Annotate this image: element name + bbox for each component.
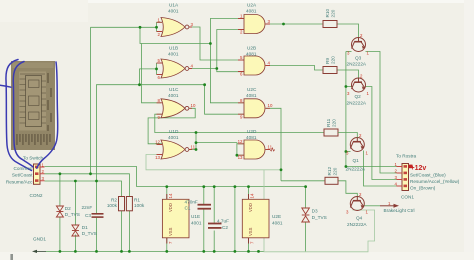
wire R9 to Q2 base: [337, 70, 359, 78]
node row2 D2 junction: [59, 172, 62, 175]
U2D output stub mark: [270, 148, 275, 151]
node U1B bracket junction: [155, 68, 158, 71]
wire U1B out branch to U2B pin6: [217, 69, 244, 72]
node VDD rail C1 junction: [202, 185, 205, 188]
svg-text:CON2: CON2: [30, 193, 43, 198]
svg-text:Q2: Q2: [355, 94, 362, 99]
wire D3 bottom lead: [305, 223, 307, 252]
resistor R10: [323, 21, 337, 28]
node U2E rail junction: [247, 185, 250, 188]
node GND R1 junction: [128, 250, 131, 253]
resistor R11: [324, 129, 338, 136]
svg-text:2N2222A: 2N2222A: [346, 166, 366, 171]
svg-text:4081: 4081: [272, 221, 283, 226]
svg-text:Q3: Q3: [355, 56, 362, 61]
wire U1A input net vertical: [90, 27, 92, 174]
svg-text:220: 220: [331, 56, 336, 64]
node U2A out junction: [282, 23, 285, 26]
wire spare vertical: [234, 187, 236, 252]
node GND U1E junction: [165, 250, 168, 253]
node GND C1 junction: [202, 250, 205, 253]
wire U1B output to junction: [190, 68, 217, 70]
diode D3 TVS: [302, 208, 310, 222]
svg-text:100k: 100k: [107, 203, 118, 208]
wire U2C output drop: [266, 108, 281, 181]
svg-text:CON1: CON1: [401, 195, 414, 200]
node GND D1 junction: [74, 250, 77, 253]
svg-text:U1E: U1E: [191, 214, 200, 219]
svg-text:D_TVS: D_TVS: [312, 215, 327, 220]
connector CON2: [34, 164, 45, 184]
svg-text:Common: Common: [13, 166, 32, 171]
op-amp U1C gate body: [161, 99, 189, 118]
node GND U2E junction: [247, 250, 250, 253]
op-amp U2C gate body: [244, 99, 265, 118]
wire U1A input bracket: [157, 22, 163, 31]
resistor R2: [119, 197, 125, 211]
svg-text:2N2222A: 2N2222A: [347, 62, 367, 67]
svg-text:2N2222A: 2N2222A: [347, 101, 367, 106]
svg-text:11: 11: [191, 144, 196, 149]
svg-text:U1D: U1D: [169, 129, 179, 134]
photo inset: [11, 61, 55, 150]
svg-text:U2E: U2E: [272, 214, 281, 219]
wire U1E pin7 lead: [166, 238, 168, 252]
wire Q2 collector tap: [346, 86, 352, 88]
diode D1 TVS: [72, 225, 79, 236]
wire Q1 emitter to CON1 pin4: [364, 151, 401, 187]
brakelight external pin: [380, 204, 399, 208]
transistor Q2: [352, 78, 366, 92]
wire row2 from CON2 pin2 to R1: [45, 174, 130, 197]
svg-text:C1: C1: [185, 206, 191, 211]
node GND D2 junction: [59, 250, 62, 253]
grey edge mark: [10, 254, 13, 260]
node GND C2 junction: [213, 250, 216, 253]
svg-text:U1C: U1C: [169, 87, 179, 92]
node VDD rail U1E junction: [165, 185, 168, 188]
capacitor C1: [198, 204, 212, 210]
node Q2 collector junction: [345, 85, 348, 88]
resistor R12: [325, 177, 338, 184]
wire row1 from CON2 pin1 to VDD rail: [45, 167, 137, 187]
wire U2A pin1 net to U2C pin8: [210, 44, 243, 103]
wire Q3 collector stub: [346, 51, 352, 53]
svg-text:D3: D3: [312, 209, 318, 214]
svg-text:12: 12: [155, 140, 160, 145]
wire U2B output to R9: [266, 66, 323, 71]
svg-text:4081: 4081: [246, 93, 257, 98]
op-amp U2B gate body: [244, 56, 265, 75]
node GND R2 junction: [120, 250, 123, 253]
svg-text:13: 13: [155, 155, 160, 160]
node row2 main junction: [89, 172, 92, 175]
diode D2 TVS: [56, 206, 63, 217]
svg-text:4001: 4001: [191, 221, 202, 226]
wire U2A pin1 feed: [210, 19, 243, 44]
wire R12 feed: [281, 180, 325, 182]
node GND vertical junction: [234, 250, 237, 253]
capacitor C3: [92, 213, 104, 218]
svg-text:D1: D1: [82, 225, 88, 230]
resistor R1: [126, 197, 132, 211]
svg-text:4081: 4081: [246, 52, 257, 57]
wire transistor collector chain: [345, 52, 347, 167]
svg-text:4.7uF: 4.7uF: [217, 219, 229, 224]
node row3 C3 junction: [95, 180, 98, 183]
svg-text:GND1: GND1: [33, 237, 46, 242]
wire +12v line to CON1 pin1: [346, 166, 400, 168]
op-amp U1D gate body: [161, 140, 189, 159]
node U1B out junction: [215, 67, 218, 70]
wire U1C output to U1D pin12: [148, 108, 195, 144]
wire R1 bottom lead: [128, 211, 130, 251]
svg-text:4081: 4081: [246, 9, 257, 14]
wire R11 to Q1 base: [338, 133, 357, 138]
svg-text:VDD: VDD: [168, 203, 173, 212]
wire U1B input riser: [97, 69, 157, 181]
wire U1D net to U1C pin9 and R11: [155, 114, 324, 132]
svg-text:Set/Coast_(Blue): Set/Coast_(Blue): [410, 173, 446, 178]
op-amp U1B gate body: [161, 59, 189, 78]
svg-text:VSS: VSS: [248, 227, 253, 236]
svg-text:10: 10: [268, 103, 273, 108]
svg-text:To Rostra: To Rostra: [396, 154, 416, 159]
node U2D bracket junction: [236, 154, 239, 157]
svg-text:U2B: U2B: [247, 46, 256, 51]
svg-text:R9: R9: [325, 58, 330, 64]
svg-text:Q4: Q4: [356, 216, 363, 221]
svg-text:4001: 4001: [168, 135, 179, 140]
transistor Q1: [350, 138, 364, 152]
node U2C pin9 branch junction: [203, 83, 206, 86]
svg-text:470nF: 470nF: [185, 200, 198, 205]
svg-text:VSS: VSS: [168, 227, 173, 236]
wire D2 bottom lead: [59, 218, 61, 252]
svg-text:U2A: U2A: [247, 3, 257, 8]
wire U1D output node: [190, 149, 196, 151]
transistor Q3: [352, 38, 366, 52]
node GND end junction: [257, 250, 260, 253]
svg-text:12: 12: [238, 139, 243, 144]
wire U1A input horizontal: [91, 26, 157, 28]
node Q1 collector junction: [345, 150, 348, 153]
svg-text:220: 220: [331, 9, 336, 17]
svg-text:D2: D2: [65, 206, 71, 211]
node row3 D1 junction: [74, 180, 77, 183]
svg-text:220: 220: [333, 167, 338, 175]
svg-text:To Switch: To Switch: [23, 156, 43, 161]
svg-text:BrakeLight Ctrl: BrakeLight Ctrl: [384, 208, 415, 213]
wire VDD rail: [137, 186, 306, 188]
svg-text:R10: R10: [325, 9, 330, 18]
wire GND rail: [46, 250, 264, 252]
svg-text:C3: C3: [85, 213, 91, 218]
svg-text:D_TVS: D_TVS: [82, 231, 97, 236]
svg-text:U1B: U1B: [169, 46, 178, 51]
svg-text:100k: 100k: [134, 203, 145, 208]
op-amp U2D gate body: [244, 140, 265, 159]
wire U1D net to U2D inputs: [196, 143, 237, 144]
svg-text:Resume/Acc: Resume/Acc: [6, 179, 33, 184]
svg-text:10: 10: [191, 103, 196, 108]
svg-text:Q1: Q1: [353, 158, 360, 163]
wire Q1 collector tap: [346, 151, 351, 153]
wire C1 leads: [203, 187, 205, 252]
resistor R9: [323, 67, 337, 74]
svg-text:C2: C2: [222, 225, 228, 230]
svg-text:14: 14: [250, 193, 255, 198]
wire light brakelight net: [146, 155, 375, 252]
node U1D riser top junction: [195, 131, 198, 134]
svg-text:4001: 4001: [168, 52, 179, 57]
svg-text:+12v: +12v: [411, 165, 427, 172]
capacitor C2: [208, 223, 222, 229]
node U1D net U2D branch junction: [195, 141, 198, 144]
wire U2E pin14 lead: [248, 187, 250, 200]
wire D1 top lead: [74, 181, 76, 225]
op-amp U2 pin stubs: [238, 19, 270, 156]
svg-text:R1: R1: [134, 198, 140, 203]
wire C2 leads: [213, 187, 215, 252]
wire U1A output to U2B pin5: [190, 27, 244, 60]
svg-text:2N2222A: 2N2222A: [347, 222, 367, 227]
node light line junction: [280, 168, 283, 171]
wire D2 top lead: [59, 174, 61, 206]
op-amp U1A gate body (NOR 4001): [161, 18, 189, 37]
wire U1E pin14 lead: [166, 187, 168, 200]
blue hand annotation: [0, 60, 58, 171]
node U1D out junction: [195, 148, 198, 151]
svg-text:D_TVS: D_TVS: [65, 212, 80, 217]
svg-text:14: 14: [168, 193, 173, 198]
wire U1B out branch to U2A pin2: [217, 30, 244, 69]
wire U1D out riser: [195, 133, 197, 150]
wire U2E pin7 lead: [248, 238, 250, 252]
node VDD rail vertical junction: [234, 185, 237, 188]
IC U2E power block: [242, 194, 269, 244]
svg-text:VDD: VDD: [248, 203, 253, 212]
svg-text:R2: R2: [111, 198, 117, 203]
wire Q4 emitter to brakelight pin: [364, 205, 380, 207]
wire U1B input bracket: [157, 63, 163, 75]
op-amp U2A gate body (AND 4081): [244, 15, 265, 34]
node U1B riser junction: [138, 83, 141, 86]
transistor Q4: [350, 197, 364, 211]
svg-text:4001: 4001: [168, 93, 179, 98]
node U1A bracket junction: [155, 26, 158, 29]
svg-text:4081: 4081: [246, 135, 257, 140]
wire U2D input bracket: [237, 144, 244, 155]
svg-text:Resume/Accel_(Yellow): Resume/Accel_(Yellow): [410, 179, 460, 184]
svg-text:R12: R12: [327, 167, 332, 176]
op-amp U1 pin stubs: [157, 22, 193, 154]
svg-text:U2D: U2D: [247, 129, 257, 134]
wire row3 from CON2 pin3 to R2: [45, 181, 122, 197]
wire D1 bottom lead: [74, 235, 76, 252]
svg-text:4001: 4001: [168, 9, 179, 14]
node VDD rail C2 junction: [213, 185, 216, 188]
wire row3 to U2C pin9: [140, 85, 244, 115]
wire Q2 emitter to CON1 pin3: [366, 87, 401, 180]
GND arrow dark: [34, 250, 46, 252]
svg-text:11: 11: [268, 144, 273, 149]
svg-text:13: 13: [238, 155, 243, 160]
wire Q3 emitter to CON1 pin2: [366, 52, 401, 174]
wire U2A output to R10: [266, 23, 323, 25]
svg-text:220: 220: [332, 119, 337, 127]
svg-text:U1A: U1A: [169, 3, 179, 8]
wire row2 drop to feedback row: [140, 27, 210, 43]
wire R10 to Q3 base: [337, 24, 359, 38]
node GND C3 junction: [95, 250, 98, 253]
IC U1E power block: [162, 194, 189, 244]
wire D3 top lead: [305, 187, 307, 208]
svg-text:On_(Brown): On_(Brown): [410, 186, 436, 191]
wire R2 bottom lead: [121, 211, 123, 251]
node D3 junction: [304, 185, 307, 188]
wire feedback to U1C pin8: [142, 44, 162, 103]
svg-text:22nF: 22nF: [82, 205, 93, 210]
svg-text:U2C: U2C: [247, 87, 257, 92]
node collector chain end junction: [345, 165, 348, 168]
wire R12 to Q4 base: [338, 181, 357, 197]
svg-text:Set/Coast: Set/Coast: [12, 173, 33, 178]
connector CON1: [397, 164, 413, 191]
wire C3 top lead: [96, 181, 98, 213]
wire C3 bottom lead: [96, 218, 98, 252]
node U1A input wire junction: [139, 26, 142, 29]
node feedback junction: [209, 42, 212, 45]
svg-text:R11: R11: [326, 118, 331, 127]
